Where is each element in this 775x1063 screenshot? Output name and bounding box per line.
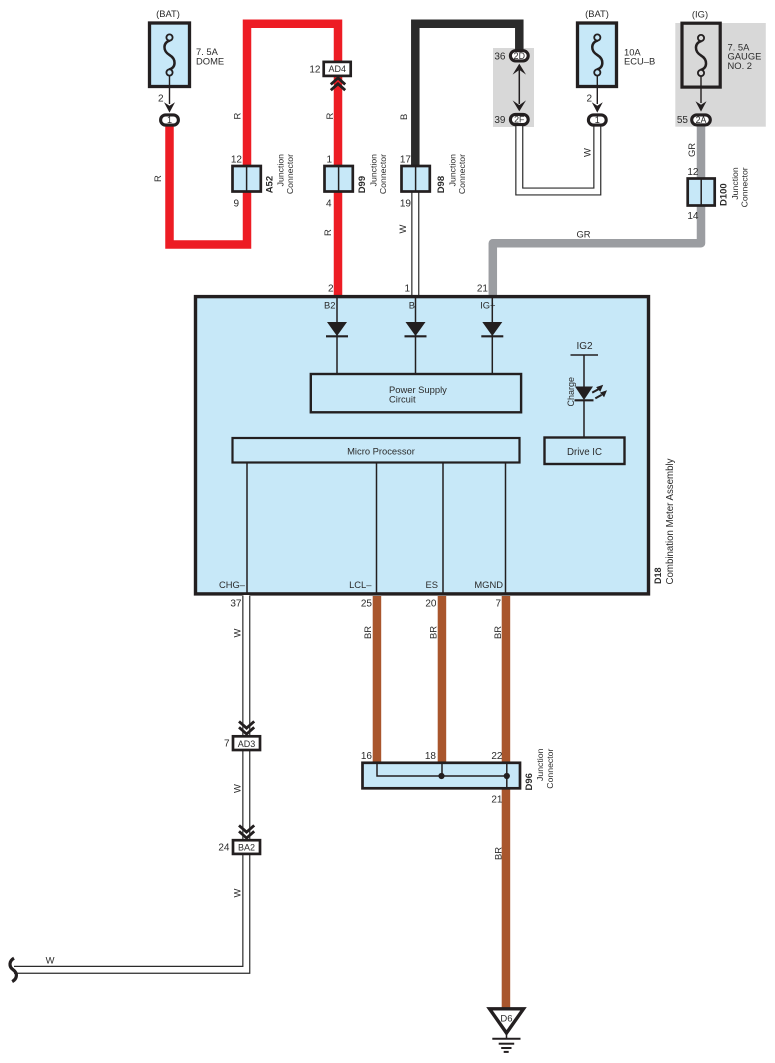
- svg-text:(BAT): (BAT): [156, 8, 180, 19]
- svg-text:MGND: MGND: [474, 579, 503, 590]
- port name IG+: [480, 300, 496, 311]
- label B (above D98): [398, 114, 409, 120]
- svg-text:D6: D6: [500, 1014, 512, 1025]
- svg-text:W: W: [397, 225, 408, 234]
- svg-text:NO. 2: NO. 2: [728, 60, 753, 71]
- svg-text:ES: ES: [425, 579, 438, 590]
- label W (horizontal run): [46, 955, 55, 966]
- svg-text:22: 22: [491, 751, 503, 762]
- svg-text:36: 36: [494, 52, 506, 63]
- wire BR from LCL- to D96 pin 16: [373, 596, 382, 766]
- diode at IG+: [481, 297, 503, 374]
- pin 2 label at meter B2: [328, 284, 334, 295]
- combination meter assembly box D18: [196, 297, 649, 594]
- svg-text:Connector: Connector: [740, 167, 750, 207]
- svg-text:DOME: DOME: [196, 56, 224, 67]
- port name B2: [324, 300, 335, 311]
- pin 2 of ECU-B fuse: [586, 76, 602, 113]
- label D18 Combination Meter Assembly: [653, 458, 676, 584]
- arrow pair between 2D and 2F: [513, 64, 526, 112]
- junction connector D96: [361, 748, 555, 805]
- svg-text:1: 1: [167, 115, 172, 125]
- svg-text:GR: GR: [686, 143, 697, 157]
- svg-text:2A: 2A: [696, 115, 707, 125]
- svg-text:55: 55: [677, 115, 689, 126]
- svg-text:Drive IC: Drive IC: [567, 447, 602, 458]
- label W (above AD3): [232, 629, 243, 638]
- junction connector D100: [687, 167, 749, 222]
- fuse 7.5A GAUGE NO.2: [682, 9, 761, 88]
- power supply circuit box: [311, 374, 521, 412]
- label R (below D99): [322, 229, 333, 236]
- svg-text:Charge: Charge: [566, 377, 576, 407]
- svg-text:1: 1: [404, 284, 410, 295]
- svg-text:IG+: IG+: [480, 300, 496, 311]
- svg-text:D99: D99: [357, 176, 368, 193]
- micro processor box: [233, 438, 520, 463]
- svg-text:20: 20: [425, 599, 437, 610]
- svg-text:W: W: [232, 784, 243, 793]
- label W on 2F wire: [582, 148, 593, 157]
- junction connector D99: [325, 154, 389, 210]
- svg-text:D100: D100: [719, 183, 730, 206]
- fuse 10A ECU-B: [578, 8, 656, 87]
- svg-text:BR: BR: [492, 626, 503, 639]
- svg-text:2: 2: [158, 94, 164, 105]
- shading behind 2D/2F connector pair: [493, 48, 534, 127]
- connector AD3: [224, 721, 260, 750]
- svg-text:12: 12: [309, 64, 321, 75]
- svg-text:R: R: [152, 175, 163, 182]
- svg-text:B: B: [409, 300, 415, 311]
- svg-text:W: W: [232, 629, 243, 638]
- svg-text:AD3: AD3: [238, 739, 256, 749]
- svg-text:ECU–B: ECU–B: [624, 56, 655, 67]
- connector 1 (DOME): [161, 115, 179, 125]
- ground D6: [490, 1009, 524, 1052]
- pin 2 of DOME fuse: [158, 76, 175, 113]
- svg-text:Connector: Connector: [545, 749, 555, 789]
- label BR (ES wire): [428, 626, 439, 639]
- fuse 7.5A DOME: [150, 8, 225, 87]
- svg-text:GR: GR: [576, 229, 590, 240]
- port name LCL-: [349, 579, 372, 590]
- svg-text:D98: D98: [436, 176, 447, 193]
- wire BR from MGND through D96 pin 22/21 to ground: [502, 596, 511, 1009]
- label BR (ground wire): [493, 847, 504, 860]
- svg-text:Connector: Connector: [378, 154, 388, 194]
- pin 55 of GAUGE fuse: [677, 77, 707, 126]
- wire W from CHG- to left edge: [14, 595, 246, 970]
- svg-text:39: 39: [494, 115, 506, 126]
- connector BA2: [218, 825, 260, 854]
- svg-text:17: 17: [400, 154, 412, 165]
- svg-text:2: 2: [328, 284, 334, 295]
- svg-text:Junction: Junction: [730, 167, 740, 200]
- internal line to CHG- pin: [246, 463, 248, 594]
- svg-text:1: 1: [326, 154, 332, 165]
- wire R from DOME fuse through A52 and AD4 to meter pin B2: [170, 24, 339, 296]
- svg-text:CHG–: CHG–: [219, 579, 246, 590]
- svg-text:37: 37: [230, 599, 242, 610]
- svg-text:21: 21: [491, 795, 503, 806]
- svg-text:Junction: Junction: [275, 154, 285, 187]
- svg-text:1: 1: [595, 115, 600, 125]
- label GR (above D100): [686, 143, 697, 157]
- internal line to ES pin: [442, 463, 444, 594]
- label BR (MGND wire): [492, 626, 503, 639]
- svg-text:Junction: Junction: [447, 154, 457, 187]
- pin 7 label: [495, 599, 501, 610]
- svg-text:BR: BR: [428, 626, 439, 639]
- wire W from 2F to ECU-B fuse pin 1: [519, 123, 597, 192]
- connector 2A: [692, 115, 711, 125]
- svg-text:16: 16: [361, 751, 373, 762]
- svg-text:Junction: Junction: [535, 748, 545, 781]
- svg-text:12: 12: [687, 167, 699, 178]
- svg-text:BR: BR: [362, 626, 373, 639]
- svg-text:BA2: BA2: [238, 843, 255, 853]
- pin 20 label: [425, 599, 437, 610]
- svg-text:R: R: [324, 113, 335, 120]
- svg-text:B: B: [398, 114, 409, 120]
- internal line to LCL- pin: [376, 463, 378, 594]
- diode at B: [405, 297, 427, 374]
- svg-text:7: 7: [495, 599, 501, 610]
- svg-text:A52: A52: [264, 176, 275, 193]
- junction connector D98: [400, 154, 467, 210]
- svg-text:21: 21: [477, 284, 489, 295]
- junction connector A52: [231, 154, 295, 210]
- label R (A52 riser): [232, 113, 243, 120]
- svg-text:(BAT): (BAT): [585, 8, 609, 19]
- svg-text:W: W: [582, 148, 593, 157]
- svg-text:IG2: IG2: [576, 341, 593, 352]
- port name B: [409, 300, 415, 311]
- svg-text:(IG): (IG): [692, 9, 708, 20]
- pin 37 label: [230, 599, 242, 610]
- svg-text:25: 25: [361, 599, 373, 610]
- port name ES: [425, 579, 438, 590]
- svg-text:7: 7: [224, 739, 230, 750]
- label R (fuse to corner): [152, 175, 163, 182]
- svg-text:D96: D96: [524, 773, 535, 790]
- label W (between AD3 and BA2): [232, 784, 243, 793]
- connector 1 (ECU-B): [588, 115, 606, 125]
- pin 21 label at meter IG+: [477, 284, 489, 295]
- svg-text:9: 9: [233, 199, 239, 210]
- svg-text:14: 14: [687, 211, 699, 222]
- connector AD4: [309, 62, 350, 90]
- label W (below D98): [397, 225, 408, 234]
- label BR (LCL- wire): [362, 626, 373, 639]
- svg-text:B2: B2: [324, 300, 335, 311]
- svg-text:Combination Meter Assembly: Combination Meter Assembly: [665, 458, 676, 584]
- svg-text:LCL–: LCL–: [349, 579, 372, 590]
- svg-text:Circuit: Circuit: [389, 393, 416, 404]
- IG2 internal node: [571, 341, 599, 387]
- svg-text:W: W: [46, 955, 55, 966]
- svg-text:24: 24: [218, 843, 230, 854]
- pin 25 label: [361, 599, 373, 610]
- charge LED: [575, 385, 608, 438]
- svg-text:R: R: [232, 113, 243, 120]
- drive IC box: [545, 438, 625, 465]
- pin 1 label at meter B: [404, 284, 410, 295]
- svg-text:D18: D18: [653, 567, 663, 584]
- label GR on horizontal wire: [576, 229, 590, 240]
- label Charge: [566, 377, 576, 407]
- svg-text:4: 4: [326, 199, 332, 210]
- svg-text:18: 18: [425, 751, 437, 762]
- wire W from D98 to meter pin B: [411, 189, 419, 296]
- internal line to MGND pin: [505, 463, 507, 594]
- svg-text:BR: BR: [493, 847, 504, 860]
- continuation squiggle: [10, 958, 16, 981]
- svg-text:Connector: Connector: [285, 154, 295, 194]
- label R (AD4 riser): [324, 113, 335, 120]
- svg-text:W: W: [232, 889, 243, 898]
- diode at B2: [326, 297, 348, 374]
- svg-text:R: R: [322, 229, 333, 236]
- label W (below BA2): [232, 889, 243, 898]
- svg-text:Junction: Junction: [368, 154, 378, 187]
- wire GR from 2A through D100 to meter pin IG+: [493, 124, 701, 296]
- svg-text:AD4: AD4: [328, 64, 346, 74]
- port name CHG-: [219, 579, 246, 590]
- wire B from D98 to 2D: [415, 24, 519, 168]
- svg-text:Micro Processor: Micro Processor: [347, 446, 415, 457]
- svg-text:Connector: Connector: [457, 154, 467, 194]
- svg-text:2: 2: [586, 94, 592, 105]
- svg-text:2F: 2F: [514, 115, 525, 125]
- svg-text:12: 12: [231, 154, 243, 165]
- shading behind IG gauge fuse: [675, 23, 766, 127]
- svg-text:2D: 2D: [514, 51, 525, 61]
- connector 2F: [494, 114, 528, 126]
- svg-text:19: 19: [400, 199, 412, 210]
- connector 2D: [494, 51, 528, 63]
- port name MGND: [474, 579, 503, 590]
- wire BR from ES to D96 pin 18: [438, 596, 447, 766]
